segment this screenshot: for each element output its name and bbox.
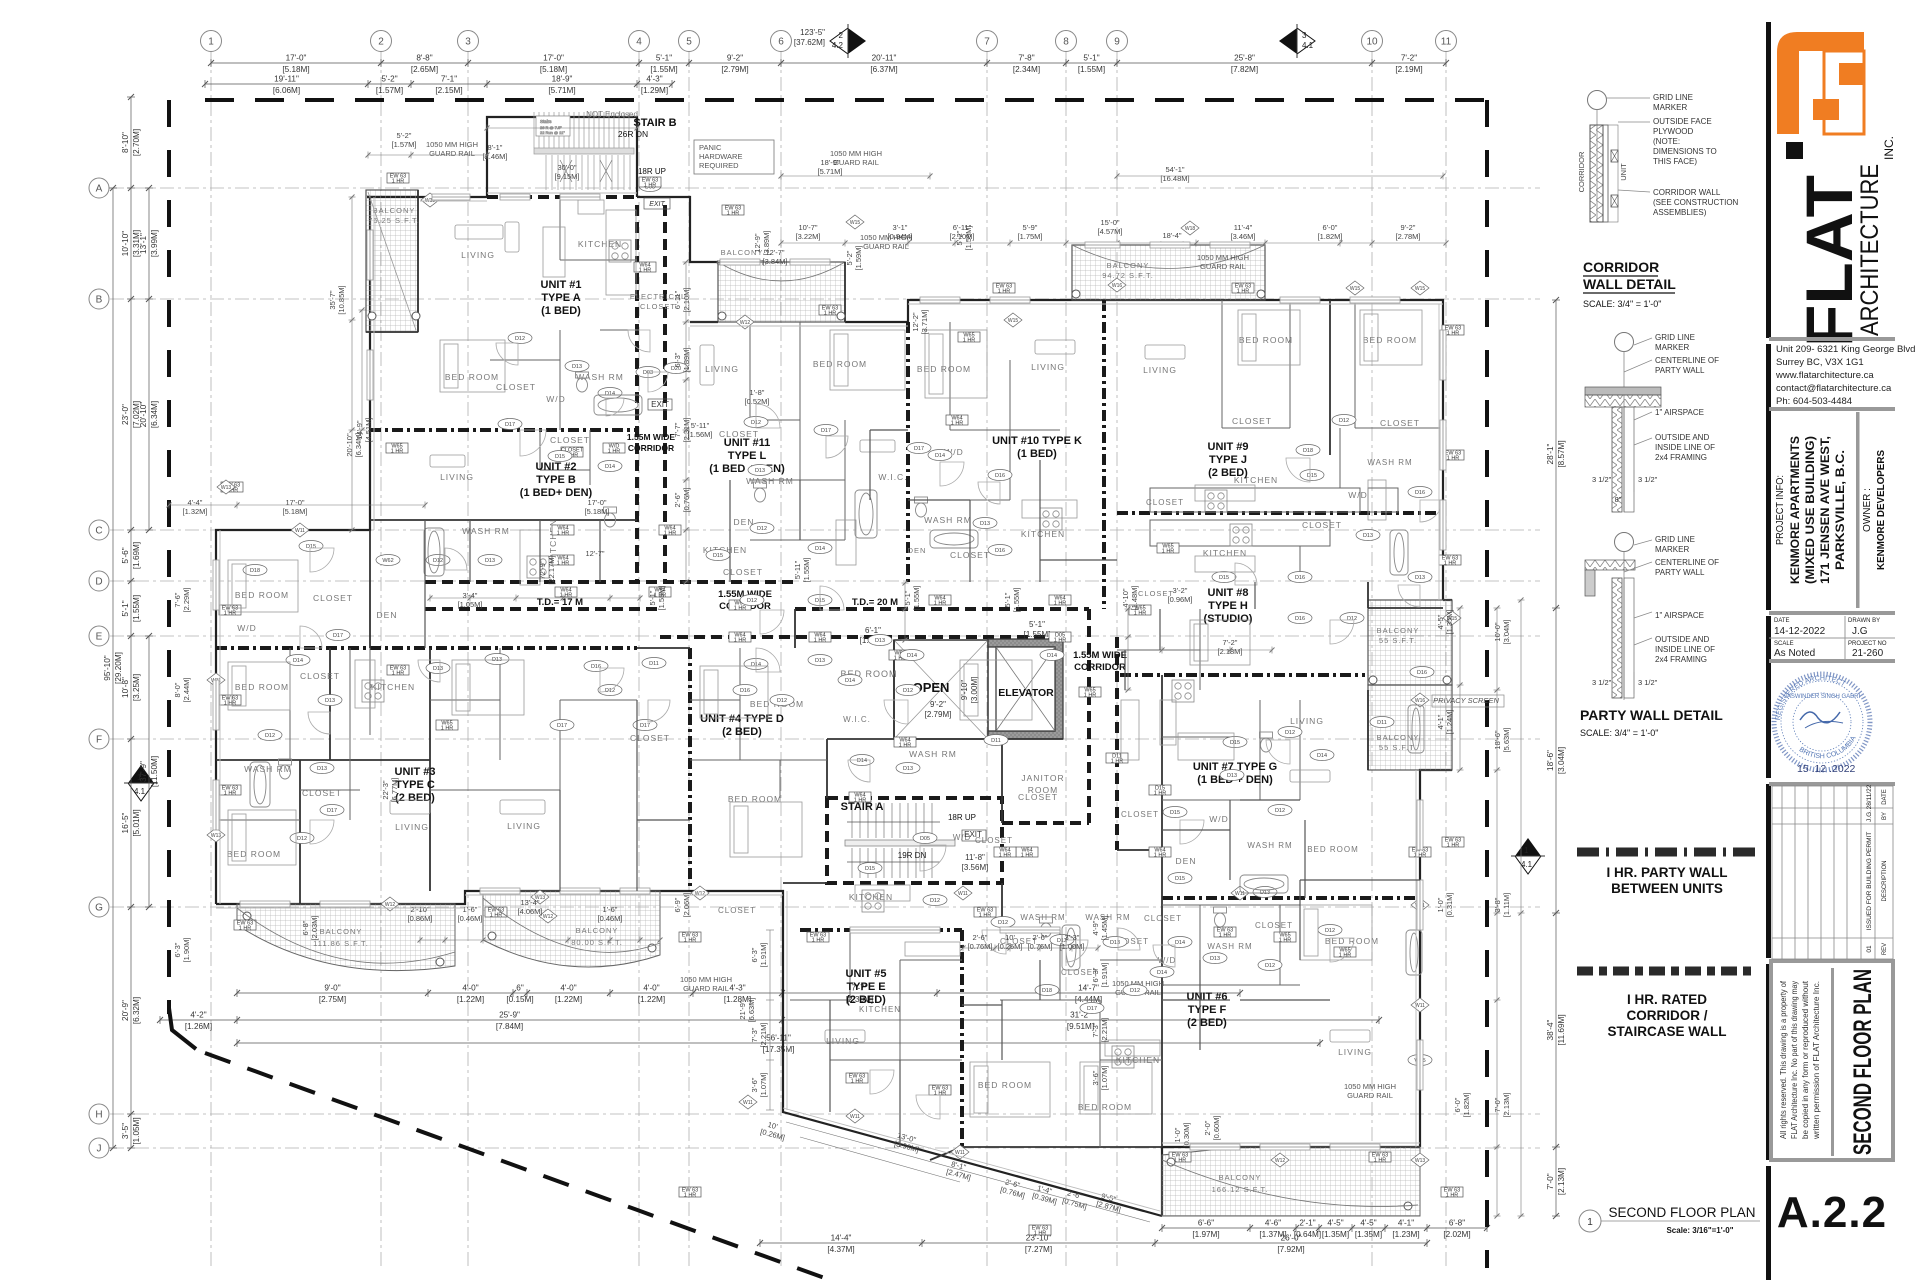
interior light partitions [216,197,1443,1147]
svg-text:[3.96M]: [3.96M] [893,1139,919,1154]
svg-text:D12: D12 [433,558,443,564]
svg-text:[0.86M]: [0.86M] [407,914,432,923]
svg-text:W12: W12 [385,902,396,908]
svg-text:EXIT: EXIT [649,201,665,208]
svg-text:4'-9": 4'-9" [1091,920,1100,935]
svg-text:4'-1": 4'-1" [1398,1219,1414,1228]
svg-text:[2.87M]: [2.87M] [1095,1199,1121,1214]
svg-text:6'-1": 6'-1" [865,626,881,635]
svg-text:D16: D16 [995,473,1005,479]
svg-text:7: 7 [984,37,990,48]
svg-text:INC.: INC. [1882,136,1896,160]
svg-text:BED ROOM: BED ROOM [1325,936,1379,946]
svg-text:4.1: 4.1 [1302,41,1314,50]
svg-text:6'-11": 6'-11" [673,290,682,309]
svg-text:J.G: J.G [1852,626,1868,637]
svg-text:[0.26M]: [0.26M] [759,1127,785,1142]
svg-text:12'-7": 12'-7" [765,248,784,257]
svg-text:(NOTE:: (NOTE: [1653,137,1680,146]
stair A flight [845,803,955,878]
svg-text:GRID LINE: GRID LINE [1655,535,1695,544]
svg-text:D14: D14 [293,658,303,664]
svg-text:1050 MM HIGH: 1050 MM HIGH [830,149,882,158]
svg-text:18'-9": 18'-9" [820,158,839,167]
svg-text:3 1/2": 3 1/2" [1638,678,1658,687]
legend corridor wall symbol [1577,967,1757,976]
svg-text:1 HR: 1 HR [684,938,697,944]
svg-text:GUARD RAIL: GUARD RAIL [1347,1091,1393,1100]
svg-text:W16: W16 [1112,283,1123,289]
svg-text:1 HR: 1 HR [557,531,570,537]
svg-text:[1.57M]: [1.57M] [376,86,403,95]
svg-text:21-260: 21-260 [1852,648,1884,659]
svg-text:14-12-2022: 14-12-2022 [1774,626,1826,637]
svg-text:TYPE F: TYPE F [1188,1004,1227,1016]
svg-text:10': 10' [1005,933,1015,942]
svg-text:A.2.2: A.2.2 [1777,1188,1887,1237]
svg-text:123'-5": 123'-5" [800,28,825,37]
grid bubbles top [201,31,1457,52]
svg-text:[2.34M]: [2.34M] [1013,65,1040,74]
svg-text:D14: D14 [1317,753,1327,759]
svg-text:6'-8": 6'-8" [301,920,310,935]
svg-text:INSIDE LINE OF: INSIDE LINE OF [1655,645,1715,654]
svg-text:[1.32M]: [1.32M] [182,507,207,516]
svg-text:[6.06M]: [6.06M] [273,86,300,95]
svg-text:4'-6": 4'-6" [1265,1219,1281,1228]
svg-text:[1.57M]: [1.57M] [391,140,416,149]
svg-text:3'-6": 3'-6" [1091,1070,1100,1085]
right dimension tier [1552,297,1560,1219]
svg-text:LIVING: LIVING [1031,362,1065,372]
svg-text:4'-0": 4'-0" [643,984,659,993]
date scale row [1769,616,1895,659]
svg-text:[1.91M]: [1.91M] [759,942,768,967]
svg-text:11: 11 [1441,37,1452,48]
svg-text:2'-6": 2'-6" [1033,933,1048,942]
svg-text:(2 BED): (2 BED) [395,792,435,804]
elevator U-shaped shaft wall [988,639,1063,739]
svg-text:FLAT: FLAT [1792,175,1866,347]
svg-text:54'-1": 54'-1" [1165,165,1184,174]
grid bubbles left [89,178,109,1158]
svg-text:KITCHEN: KITCHEN [1021,529,1065,539]
svg-text:[1.59M]: [1.59M] [964,225,973,250]
svg-text:18R UP: 18R UP [948,813,976,822]
svg-text:WASH RM: WASH RM [1207,942,1252,951]
svg-text:[1.55M]: [1.55M] [657,585,666,610]
svg-text:7'-6": 7'-6" [173,592,182,607]
svg-text:1.55M WIDE: 1.55M WIDE [627,432,676,442]
svg-text:KITCHEN: KITCHEN [1203,548,1247,558]
svg-text:1 HR: 1 HR [854,798,867,804]
svg-text:[16.48M]: [16.48M] [1160,174,1189,183]
svg-text:3'-6": 3'-6" [750,1077,759,1092]
svg-text:1: 1 [208,37,214,48]
svg-text:[4.06M]: [4.06M] [517,907,542,916]
svg-text:5'-11": 5'-11" [793,560,802,579]
svg-text:KITCHEN: KITCHEN [1116,1055,1160,1065]
svg-text:W18: W18 [1185,226,1196,232]
svg-text:9'-2": 9'-2" [727,54,743,63]
svg-text:[7.82M]: [7.82M] [1231,65,1258,74]
svg-text:[1.59M]: [1.59M] [854,245,863,270]
svg-text:6'-3": 6'-3" [750,947,759,962]
svg-text:LIVING: LIVING [461,250,495,260]
svg-text:TYPE C: TYPE C [395,779,435,791]
svg-text:W11: W11 [1415,1003,1425,1009]
svg-text:[1.22M]: [1.22M] [638,995,665,1004]
svg-text:KENMORE DEVELOPERS: KENMORE DEVELOPERS [1875,450,1887,570]
svg-text:6": 6" [516,984,524,993]
svg-text:3'-8": 3'-8" [1493,897,1502,912]
svg-text:DIMENSIONS TO: DIMENSIONS TO [1653,147,1717,156]
svg-text:CLOSET: CLOSET [640,302,676,311]
svg-text:DATE: DATE [1774,618,1790,624]
section marker 1/4.1 left [124,765,158,801]
svg-text:[5.18M]: [5.18M] [282,65,309,74]
svg-text:(1 BED+ DEN): (1 BED+ DEN) [520,487,593,499]
svg-text:LIVING: LIVING [1290,716,1324,726]
svg-text:W/D: W/D [1209,814,1229,824]
svg-text:[0.76M]: [0.76M] [967,942,992,951]
svg-text:7'-7": 7'-7" [673,422,682,437]
svg-text:D12: D12 [1285,730,1295,736]
svg-text:[3.22M]: [3.22M] [795,232,820,241]
svg-text:[3.71M]: [3.71M] [920,309,929,334]
svg-text:D12: D12 [777,698,787,704]
svg-text:WASH RM: WASH RM [1247,841,1292,850]
svg-text:CLOSET: CLOSET [630,733,670,743]
svg-text:LIVING: LIVING [507,821,541,831]
svg-text:1 HR: 1 HR [1447,843,1460,849]
svg-text:1 HR: 1 HR [812,938,825,944]
svg-text:[1.45M]: [1.45M] [1100,915,1109,940]
svg-text:D18: D18 [1042,988,1052,994]
svg-text:1'-6": 1'-6" [603,905,618,914]
svg-text:[1.55M]: [1.55M] [912,585,921,610]
svg-text:111.86 S.F.T.: 111.86 S.F.T. [313,939,369,948]
svg-text:[5.63M]: [5.63M] [1502,727,1511,752]
svg-text:[11.69M]: [11.69M] [1557,1014,1566,1045]
svg-text:D13: D13 [903,766,913,772]
svg-text:[0.76M]: [0.76M] [682,487,691,512]
svg-text:18'-6": 18'-6" [1493,730,1502,749]
svg-text:1050 MM HIGH: 1050 MM HIGH [1197,253,1249,262]
svg-text:CLOSET: CLOSET [1232,416,1272,426]
svg-text:D17: D17 [1087,1006,1097,1012]
svg-text:9'-10": 9'-10" [960,680,969,701]
svg-text:[7.92M]: [7.92M] [1277,1245,1304,1254]
svg-text:[2.65M]: [2.65M] [411,65,438,74]
balcony sw 111.86 SFT [237,904,455,971]
svg-text:[1.82M]: [1.82M] [1462,1092,1471,1117]
svg-text:GUARD RAIL: GUARD RAIL [1200,262,1246,271]
svg-text:5'-1": 5'-1" [1029,620,1045,629]
svg-text:[4.37M]: [4.37M] [827,1245,854,1254]
svg-text:D14: D14 [605,464,615,470]
svg-text:D12: D12 [1275,808,1285,814]
svg-text:6'-3": 6'-3" [673,352,682,367]
svg-text:(2 BED): (2 BED) [846,994,886,1006]
svg-text:contact@flatarchitecture.ca: contact@flatarchitecture.ca [1776,383,1892,394]
FLAT logo black text [1786,136,1896,347]
svg-text:[6.34M]: [6.34M] [150,401,159,428]
interior dimension annotations [173,131,1511,1214]
svg-text:5'-6": 5'-6" [121,547,130,563]
svg-text:(SEE CONSTRUCTION: (SEE CONSTRUCTION [1653,198,1739,207]
svg-text:HARDWARE: HARDWARE [699,152,742,161]
balcony se 166.12 SFT [1162,1147,1420,1216]
svg-text:12'-7": 12'-7" [585,549,604,558]
building exterior outline [216,117,1452,1216]
svg-text:W11: W11 [850,1114,860,1120]
svg-text:D14: D14 [845,678,855,684]
west dim chain near unit5 [173,587,768,1097]
svg-text:[1.26M]: [1.26M] [185,1022,212,1031]
svg-text:4'-0": 4'-0" [560,984,576,993]
svg-text:GRID LINE: GRID LINE [1653,93,1693,102]
svg-text:WASH RM: WASH RM [576,372,624,382]
svg-text:[5.18M]: [5.18M] [540,65,567,74]
svg-text:OWNER :: OWNER : [1862,488,1873,532]
svg-text:3 1/2": 3 1/2" [1592,678,1612,687]
svg-text:8'-10": 8'-10" [121,132,130,153]
svg-text:PROJECT NO: PROJECT NO [1848,641,1887,647]
svg-text:REV: REV [1882,943,1888,955]
svg-text:4'-2": 4'-2" [190,1011,206,1020]
svg-text:1 HR: 1 HR [999,853,1012,859]
dimension chain lines with ticks [167,125,1525,1223]
svg-text:2: 2 [378,37,384,48]
svg-text:D12: D12 [1347,616,1357,622]
svg-text:13'-1": 13'-1" [139,233,148,254]
svg-text:(1 BED): (1 BED) [541,305,581,317]
svg-text:5'-1": 5'-1" [903,590,912,605]
svg-text:D15: D15 [1175,876,1185,882]
svg-text:GUARD RAIL: GUARD RAIL [683,984,729,993]
svg-text:2'-10": 2'-10" [410,905,429,914]
svg-text:4'-3": 4'-3" [646,75,662,84]
svg-text:UNIT #6: UNIT #6 [1187,991,1228,1003]
svg-text:[0.76M]: [0.76M] [999,1185,1025,1200]
section marker 3/4.1 [1279,24,1315,58]
svg-text:PROJECT INFO:: PROJECT INFO: [1774,475,1786,545]
svg-text:As Noted: As Noted [1774,648,1815,659]
svg-text:CORRIDOR: CORRIDOR [1074,662,1126,673]
svg-text:KITCHEN: KITCHEN [859,1005,901,1014]
svg-text:9'-2": 9'-2" [930,700,946,709]
svg-text:EXIT: EXIT [964,830,982,839]
svg-text:2'-6": 2'-6" [973,933,988,942]
svg-text:1 HR: 1 HR [664,531,677,537]
svg-text:(MIXED USE BUILDING): (MIXED USE BUILDING) [1805,436,1817,584]
svg-text:[22.17M]: [22.17M] [547,555,556,584]
svg-text:20'-9": 20'-9" [121,1000,130,1021]
svg-text:2: 2 [839,31,844,40]
svg-text:D14: D14 [1047,653,1057,659]
svg-text:[1.29M]: [1.29M] [641,86,668,95]
svg-text:10'-0": 10'-0" [1493,622,1502,641]
svg-text:5'-2": 5'-2" [381,75,397,84]
svg-text:TYPE E: TYPE E [846,981,885,993]
section marker 1/4.1 right [1511,838,1545,874]
svg-text:W/D: W/D [546,394,566,404]
svg-text:76.25 S.F.T.: 76.25 S.F.T. [368,216,420,225]
svg-text:(STUDIO): (STUDIO) [1204,613,1253,625]
svg-text:28'-1": 28'-1" [1546,443,1555,464]
svg-text:D16: D16 [1295,616,1305,622]
svg-text:BALCONY: BALCONY [1219,1173,1262,1182]
svg-text:1 HR: 1 HR [1374,1158,1387,1164]
svg-text:W62: W62 [382,558,393,564]
svg-text:W12: W12 [1275,1158,1286,1164]
svg-text:1 HR: 1 HR [1154,791,1167,797]
party wall detail title [1580,707,1723,738]
svg-text:D13: D13 [1227,773,1237,779]
svg-text:1 HR: 1 HR [441,726,454,732]
svg-text:25'-9": 25'-9" [499,1011,520,1020]
svg-text:[2.75M]: [2.75M] [319,995,346,1004]
svg-text:[2.29M]: [2.29M] [182,587,191,612]
svg-text:[1.97M]: [1.97M] [1192,1230,1219,1239]
svg-text:D15: D15 [1219,575,1229,581]
svg-text:LIVING: LIVING [705,364,739,374]
svg-text:35'-7": 35'-7" [328,290,337,309]
svg-text:[0.60M]: [0.60M] [1212,1115,1221,1140]
svg-text:C: C [95,526,102,537]
svg-text:37'-9": 37'-9" [139,761,148,782]
svg-text:CLOSET: CLOSET [550,435,590,445]
svg-text:D16: D16 [591,664,601,670]
svg-text:[1.55M]: [1.55M] [132,595,141,622]
svg-text:BED ROOM: BED ROOM [227,849,281,859]
svg-text:5'-1": 5'-1" [648,590,657,605]
svg-text:BALCONY: BALCONY [320,927,363,936]
svg-text:1 HR: 1 HR [824,311,837,317]
door tags [243,333,1434,1066]
svg-text:W11: W11 [1235,891,1245,897]
revision table [1769,782,1895,963]
svg-text:W.I.C.: W.I.C. [878,472,907,482]
svg-text:D13: D13 [325,698,335,704]
svg-text:D13: D13 [980,521,990,527]
svg-text:2x4 FRAMING: 2x4 FRAMING [1655,655,1707,664]
svg-text:[0.31M]: [0.31M] [1445,892,1454,917]
svg-text:BED ROOM: BED ROOM [1239,335,1293,345]
svg-text:W11: W11 [743,1100,753,1106]
svg-text:2'-1": 2'-1" [1299,1219,1315,1228]
svg-text:1 HR: 1 HR [851,1079,864,1085]
svg-text:1 HR: 1 HR [1339,953,1352,959]
svg-text:BED ROOM: BED ROOM [445,372,499,382]
svg-text:D15: D15 [555,454,565,460]
svg-text:[8.57M]: [8.57M] [1557,440,1566,467]
floor plan title bottom [1579,1205,1760,1235]
svg-text:[4.57M]: [4.57M] [1097,227,1122,236]
svg-text:D13: D13 [1110,940,1120,946]
svg-text:[11.50M]: [11.50M] [150,756,159,787]
svg-text:18'-6": 18'-6" [1546,750,1555,771]
svg-text:SCALE: 3/4" = 1'-0": SCALE: 3/4" = 1'-0" [1583,299,1661,309]
svg-text:3 1/2": 3 1/2" [1638,475,1658,484]
svg-text:4'-5": 4'-5" [1327,1219,1343,1228]
svg-text:[6.63M]: [6.63M] [747,997,756,1022]
svg-text:2'-6": 2'-6" [673,492,682,507]
svg-text:D11: D11 [1377,720,1387,726]
svg-text:KITCHEN: KITCHEN [578,239,622,249]
svg-text:F: F [96,735,102,746]
svg-text:[3.04M]: [3.04M] [1557,747,1566,774]
svg-text:SECOND FLOOR PLAN: SECOND FLOOR PLAN [1849,969,1877,1155]
svg-text:[2.44M]: [2.44M] [182,677,191,702]
svg-text:NOT Enclosed: NOT Enclosed [586,110,638,119]
svg-text:18'-9": 18'-9" [552,75,573,84]
svg-text:1 HR: 1 HR [727,211,740,217]
svg-text:D13: D13 [875,638,885,644]
svg-text:[1.48M]: [1.48M] [1130,585,1139,610]
svg-text:D15: D15 [306,544,316,550]
svg-text:17'-0": 17'-0" [286,54,307,63]
svg-text:95'-10": 95'-10" [103,655,112,681]
svg-text:G: G [95,903,103,914]
svg-text:D13: D13 [815,658,825,664]
svg-text:BETWEEN UNITS: BETWEEN UNITS [1611,881,1723,896]
svg-text:D18: D18 [1303,448,1313,454]
svg-text:CLOSET: CLOSET [1255,921,1293,930]
svg-text:1 HR: 1 HR [1034,1231,1047,1237]
svg-text:SCALE: 3/4" = 1'-0": SCALE: 3/4" = 1'-0" [1580,728,1658,738]
svg-text:1 HR: 1 HR [1237,289,1250,295]
wall rating tag boxes [219,173,1464,1237]
svg-text:[3.99M]: [3.99M] [150,230,159,257]
svg-text:Unit 209- 6321 King George Blv: Unit 209- 6321 King George Blvd [1776,344,1915,355]
svg-text:7'-0": 7'-0" [1493,1097,1502,1112]
svg-text:D15: D15 [1307,473,1317,479]
svg-text:[1.22M]: [1.22M] [555,995,582,1004]
svg-text:D14: D14 [605,391,615,397]
svg-text:EXIT: EXIT [651,400,669,409]
svg-text:BED ROOM: BED ROOM [728,794,782,804]
stair B treads [534,112,634,190]
svg-text:1 HR: 1 HR [224,611,237,617]
svg-text:2x4 FRAMING: 2x4 FRAMING [1655,453,1707,462]
svg-text:3'-3": 3'-3" [1065,933,1080,942]
svg-text:[0.64M]: [0.64M] [1294,1230,1321,1239]
svg-text:D12: D12 [515,336,525,342]
svg-text:[0.46M]: [0.46M] [597,914,622,923]
svg-text:4'-1": 4'-1" [1436,714,1445,729]
svg-text:3'-5": 3'-5" [121,1123,130,1139]
svg-text:1 HR: 1 HR [734,606,747,612]
additional interior partitions units 9 8 7 [425,430,1420,1147]
svg-text:STAIRCASE WALL: STAIRCASE WALL [1608,1024,1727,1039]
svg-text:D12: D12 [757,526,767,532]
svg-text:D17: D17 [327,808,337,814]
svg-text:[37.62M]: [37.62M] [794,38,825,47]
svg-text:25'-8": 25'-8" [1234,54,1255,63]
exterior wall inner parallel lines [216,193,1443,1211]
svg-text:[1.07M]: [1.07M] [1100,1065,1109,1090]
svg-text:CORRIDOR /: CORRIDOR / [1627,1008,1708,1023]
svg-text:[10.85M]: [10.85M] [337,285,346,314]
title block divider bar [1766,22,1771,1280]
svg-text:[1.90M]: [1.90M] [182,937,191,962]
svg-text:W15: W15 [850,220,861,226]
svg-text:CLOSET: CLOSET [1380,418,1420,428]
svg-text:30'-0": 30'-0" [557,163,576,172]
svg-text:D16: D16 [995,548,1005,554]
